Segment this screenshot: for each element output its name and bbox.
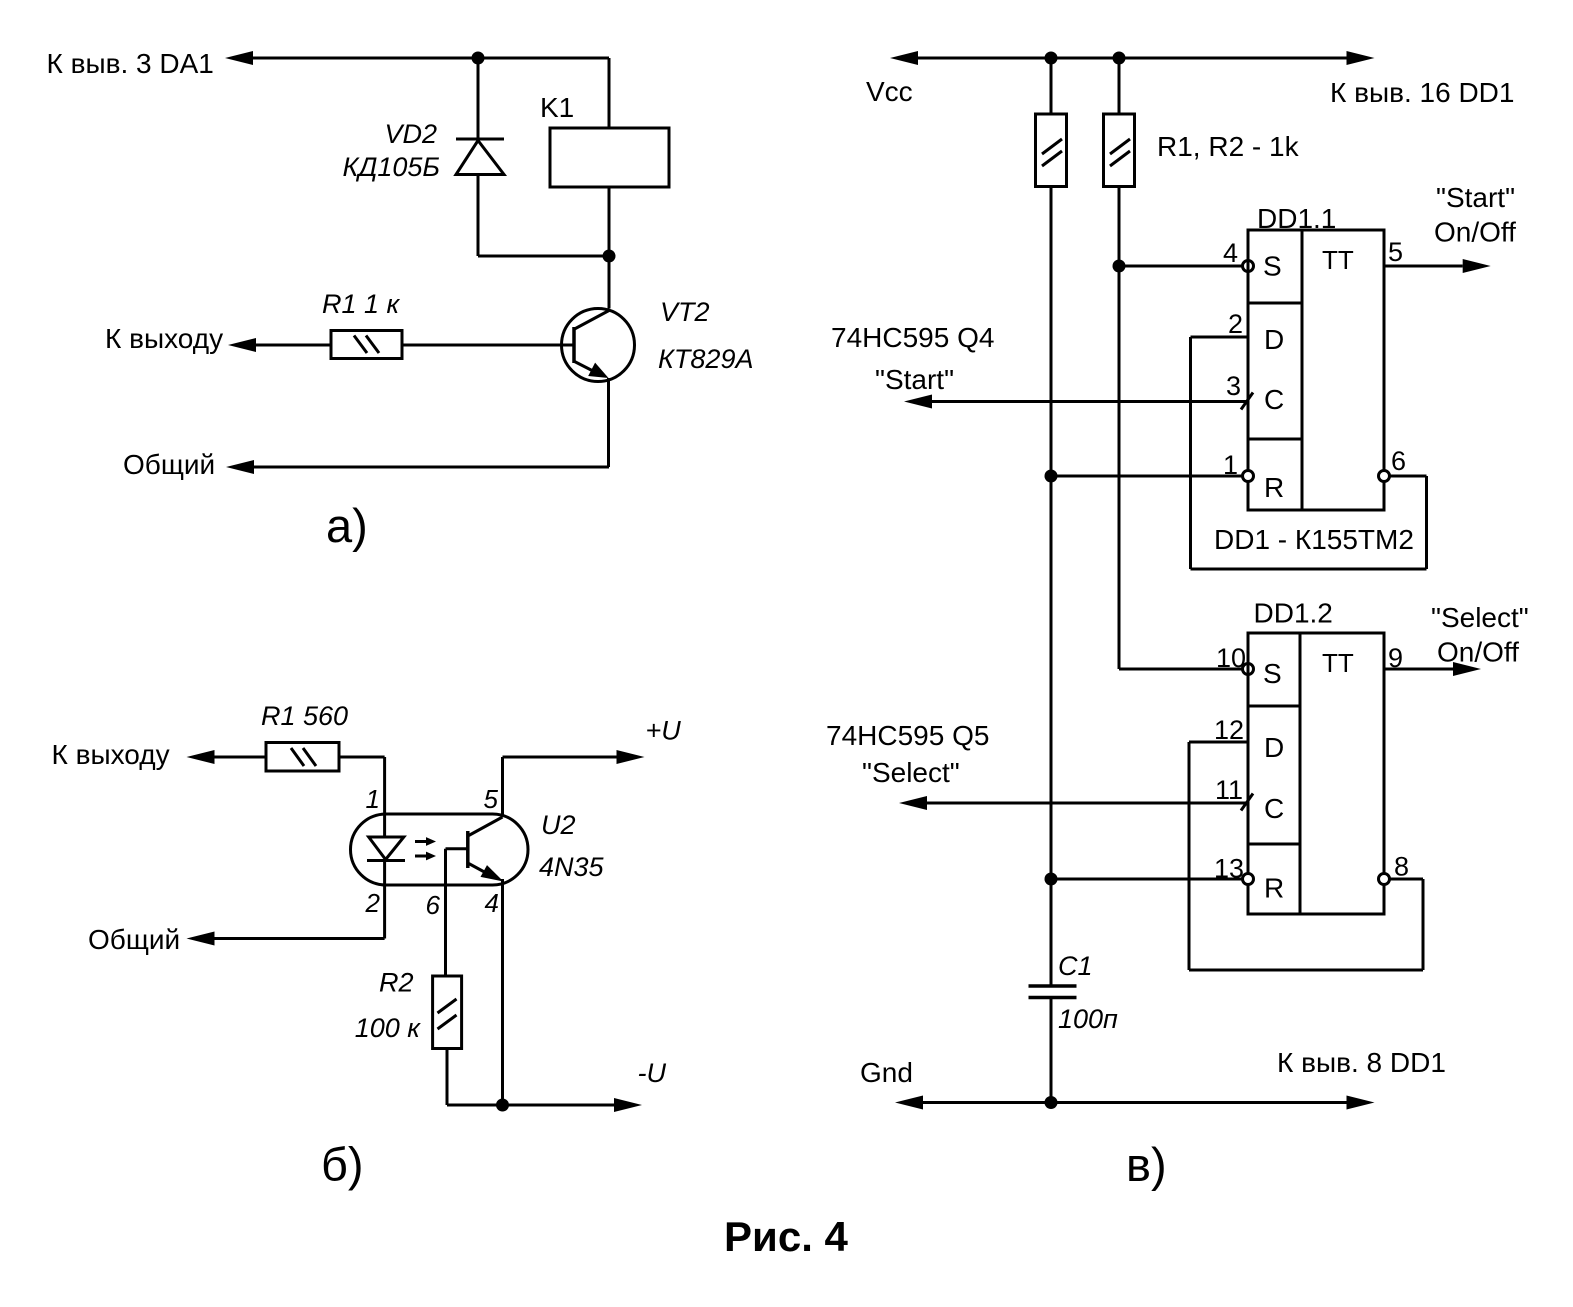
- svg-text:DD1 - К155ТМ2: DD1 - К155ТМ2: [1214, 524, 1414, 555]
- svg-text:2: 2: [365, 888, 381, 918]
- svg-text:100п: 100п: [1058, 1004, 1118, 1034]
- svg-text:TT: TT: [1322, 245, 1354, 275]
- svg-text:100 к: 100 к: [355, 1013, 422, 1043]
- svg-text:11: 11: [1215, 775, 1243, 805]
- svg-text:D: D: [1264, 324, 1284, 355]
- svg-text:-U: -U: [638, 1058, 667, 1088]
- svg-text:"Select": "Select": [862, 757, 960, 788]
- svg-text:Gnd: Gnd: [860, 1057, 913, 1088]
- svg-text:К выв. 8 DD1: К выв. 8 DD1: [1277, 1047, 1446, 1078]
- svg-text:U2: U2: [541, 810, 576, 840]
- svg-text:б): б): [321, 1138, 364, 1191]
- svg-text:TT: TT: [1322, 648, 1354, 678]
- svg-text:"Select": "Select": [1431, 602, 1529, 633]
- svg-text:"Start": "Start": [1436, 182, 1515, 213]
- svg-text:74HC595 Q5: 74HC595 Q5: [826, 720, 989, 751]
- svg-text:К выв. 3 DA1: К выв. 3 DA1: [47, 48, 214, 79]
- svg-text:R1, R2 - 1k: R1, R2 - 1k: [1157, 131, 1300, 162]
- svg-text:Vcc: Vcc: [866, 76, 913, 107]
- svg-text:4: 4: [485, 888, 499, 918]
- svg-text:К выходу: К выходу: [52, 739, 170, 770]
- svg-text:S: S: [1263, 251, 1282, 282]
- svg-text:КТ829А: КТ829А: [658, 344, 753, 374]
- svg-text:On/Off: On/Off: [1437, 637, 1519, 668]
- svg-text:10: 10: [1216, 643, 1246, 673]
- svg-text:К выходу: К выходу: [105, 323, 223, 354]
- svg-text:R: R: [1264, 472, 1284, 503]
- svg-text:Общий: Общий: [88, 924, 180, 955]
- svg-text:а): а): [326, 499, 368, 552]
- svg-text:5: 5: [1388, 237, 1403, 267]
- svg-text:D: D: [1264, 732, 1284, 763]
- svg-text:4N35: 4N35: [539, 852, 605, 882]
- svg-text:Рис. 4: Рис. 4: [724, 1213, 849, 1260]
- svg-text:1: 1: [366, 784, 380, 814]
- svg-text:R2: R2: [379, 968, 414, 998]
- svg-text:VT2: VT2: [660, 297, 710, 327]
- svg-text:3: 3: [1226, 371, 1241, 401]
- svg-text:S: S: [1263, 658, 1282, 689]
- svg-text:6: 6: [1391, 446, 1406, 476]
- svg-text:в): в): [1126, 1138, 1167, 1191]
- svg-text:C: C: [1264, 793, 1284, 824]
- svg-text:6: 6: [426, 890, 441, 920]
- svg-text:"Start": "Start": [875, 364, 954, 395]
- svg-text:8: 8: [1394, 852, 1409, 882]
- svg-text:R1 560: R1 560: [261, 701, 348, 731]
- svg-text:4: 4: [1223, 238, 1238, 268]
- svg-text:R1 1 к: R1 1 к: [322, 289, 401, 319]
- svg-text:DD1.2: DD1.2: [1254, 598, 1333, 629]
- svg-text:R: R: [1264, 873, 1284, 904]
- svg-text:2: 2: [1228, 309, 1243, 339]
- svg-text:On/Off: On/Off: [1434, 217, 1516, 248]
- svg-text:C: C: [1264, 384, 1284, 415]
- svg-text:C1: C1: [1058, 951, 1093, 981]
- svg-text:+U: +U: [646, 716, 682, 746]
- svg-text:74HC595 Q4: 74HC595 Q4: [831, 322, 994, 353]
- svg-text:K1: K1: [540, 92, 574, 123]
- svg-text:VD2: VD2: [384, 119, 437, 149]
- svg-text:КД105Б: КД105Б: [342, 152, 440, 182]
- svg-text:Общий: Общий: [123, 449, 215, 480]
- svg-text:5: 5: [484, 784, 499, 814]
- svg-text:DD1.1: DD1.1: [1257, 203, 1336, 234]
- svg-text:К выв. 16 DD1: К выв. 16 DD1: [1330, 77, 1514, 108]
